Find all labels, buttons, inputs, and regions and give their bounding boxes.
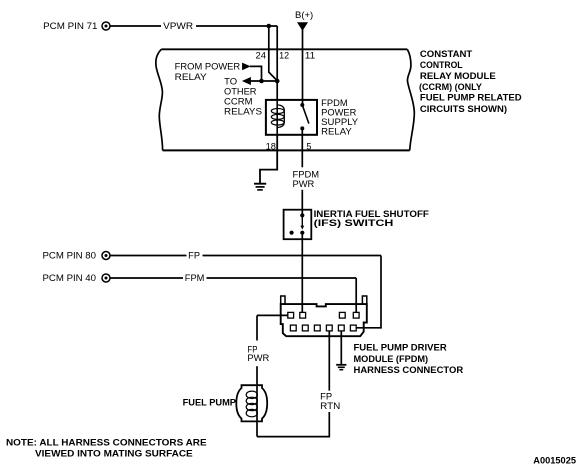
wire FP PWR: [257, 315, 288, 436]
wire pin 24 (with slant to junction): [269, 26, 277, 81]
CCRM module right torn edge: [407, 49, 414, 150]
net label FPDM PWR: [293, 169, 320, 189]
wire pin 11 from B(+): [302, 29, 304, 106]
svg-text:CIRCUITS SHOWN): CIRCUITS SHOWN): [420, 104, 507, 114]
PCM PIN 71 connector symbol: [102, 22, 110, 30]
relay switch blade: [302, 105, 309, 124]
svg-text:B(+): B(+): [295, 10, 313, 20]
svg-text:FROM POWER: FROM POWER: [175, 62, 241, 72]
relay switch top contact: [300, 103, 304, 107]
connector lower pin 1: [290, 325, 296, 331]
IFS switch side contact: [290, 231, 294, 235]
arrow from power relay: [242, 63, 251, 71]
relay coil loops: [271, 109, 284, 126]
IFS switch arrow: [300, 215, 304, 229]
wire pin 12 vertical: [276, 26, 278, 100]
svg-text:PWR: PWR: [293, 179, 315, 189]
wire pin 5 FPDM PWR: [301, 128, 303, 215]
svg-text:HARNESS CONNECTOR: HARNESS CONNECTOR: [354, 365, 464, 375]
PCM PIN 40 connector symbol: [102, 274, 110, 282]
svg-text:VIEWED INTO MATING SURFACE: VIEWED INTO MATING SURFACE: [35, 448, 193, 458]
FPDM harness connector right ear: [362, 296, 366, 304]
ground symbol CCRM: [254, 184, 266, 190]
wire harness ground stub: [340, 331, 342, 364]
connector lower pin 4: [326, 325, 332, 331]
connector upper pin 3: [339, 312, 345, 318]
svg-text:PCM PIN 71: PCM PIN 71: [43, 21, 97, 31]
svg-text:FPDM: FPDM: [321, 98, 347, 108]
svg-text:TO: TO: [224, 77, 237, 87]
CCRM title text block: [419, 49, 522, 114]
svg-text:RELAYS: RELAYS: [224, 106, 262, 116]
svg-text:FUEL PUMP: FUEL PUMP: [183, 398, 236, 408]
note text: [6, 438, 207, 459]
wire FPM: [110, 278, 356, 312]
svg-text:NOTE: ALL HARNESS CONNECTORS A: NOTE: ALL HARNESS CONNECTORS ARE: [6, 438, 207, 448]
svg-text:(IFS) SWITCH: (IFS) SWITCH: [314, 218, 394, 228]
fuel pump coil loops: [246, 391, 257, 417]
fuel pump M1 outline: [236, 385, 267, 421]
wire FP: [110, 256, 381, 328]
FPDM POWER SUPPLY RELAY label: [321, 98, 358, 137]
svg-text:RTN: RTN: [320, 401, 340, 411]
svg-text:RELAY: RELAY: [321, 127, 352, 137]
battery terminal triangle: [297, 22, 308, 31]
connector lower pin 6: [350, 325, 356, 331]
CCRM module left torn edge: [156, 49, 163, 150]
wire VPWR horizontal: [110, 25, 277, 27]
FROM POWER RELAY label: [175, 62, 241, 82]
svg-text:FP: FP: [188, 251, 200, 261]
svg-text:A0015025: A0015025: [533, 456, 576, 466]
net label FP PWR: [247, 345, 269, 364]
svg-text:CCRM: CCRM: [224, 97, 253, 107]
svg-text:FPM: FPM: [185, 273, 205, 283]
svg-text:PCM PIN 40: PCM PIN 40: [43, 273, 97, 283]
svg-text:VPWR: VPWR: [163, 21, 194, 31]
svg-text:RELAY MODULE: RELAY MODULE: [420, 71, 496, 81]
relay coil right arc: [277, 105, 284, 128]
FPDM harness connector body: [281, 304, 367, 336]
relay coil wire through: [276, 100, 278, 135]
TO OTHER CCRM RELAYS label: [224, 77, 262, 117]
connector lower pin 2: [302, 325, 308, 331]
connector lower pin 5: [338, 325, 344, 331]
wire pin 18 to ground: [260, 135, 277, 183]
svg-text:FUEL PUMP DRIVER: FUEL PUMP DRIVER: [354, 343, 448, 353]
net label FP RTN: [320, 392, 340, 412]
junction dot feed/bus: [259, 79, 264, 84]
junction dot bus/pin12: [275, 79, 280, 84]
svg-text:FUEL PUMP RELATED: FUEL PUMP RELATED: [420, 93, 522, 103]
wire internal bus to pin junction: [250, 80, 277, 82]
IFS switch box: [284, 210, 312, 240]
svg-text:PWR: PWR: [247, 353, 269, 363]
relay switch bottom contact: [300, 126, 304, 130]
svg-text:SUPPLY: SUPPLY: [321, 117, 358, 127]
INERTIA FUEL SHUTOFF (IFS) SWITCH label: [314, 209, 430, 228]
svg-text:11: 11: [305, 50, 316, 60]
svg-text:FP: FP: [320, 392, 332, 402]
relay K1 box (FPDM power supply relay): [266, 100, 317, 135]
CCRM module bottom border: [163, 149, 410, 151]
arrow to other CCRM relays: [242, 77, 251, 85]
FPDM harness connector left ear: [281, 296, 285, 304]
svg-text:PCM PIN 80: PCM PIN 80: [43, 250, 97, 260]
connector upper pin 2: [300, 312, 306, 318]
svg-text:OTHER: OTHER: [224, 87, 257, 97]
svg-text:(CCRM) (ONLY: (CCRM) (ONLY: [419, 82, 482, 92]
svg-text:5: 5: [306, 141, 311, 151]
svg-text:CONTROL: CONTROL: [420, 60, 463, 70]
IFS switch top contact: [300, 213, 304, 217]
IFS switch bottom contact: [300, 231, 304, 235]
svg-text:RELAY: RELAY: [175, 72, 207, 82]
connector lower pin 3: [314, 325, 320, 331]
svg-text:CONSTANT: CONSTANT: [420, 49, 473, 59]
svg-text:MODULE (FPDM): MODULE (FPDM): [354, 354, 429, 364]
svg-text:18: 18: [266, 141, 276, 151]
wire FP RTN: [257, 331, 329, 437]
connector upper pin 4: [353, 312, 359, 318]
svg-text:12: 12: [279, 50, 289, 60]
ground symbol harness connector: [336, 365, 346, 370]
FUEL PUMP DRIVER MODULE (FPDM) HARNESS CONNECTOR label: [354, 343, 464, 376]
connector upper pin 1: [288, 312, 294, 318]
svg-text:FPDM: FPDM: [293, 169, 320, 179]
CCRM module top border: [161, 48, 407, 50]
svg-text:24: 24: [256, 50, 267, 60]
wire from power relay feed: [250, 66, 262, 81]
junction dot VPWR/pin24: [267, 24, 272, 29]
wire IFS output: [301, 233, 303, 313]
svg-text:POWER: POWER: [321, 108, 357, 118]
PCM PIN 80 connector symbol: [102, 252, 110, 260]
